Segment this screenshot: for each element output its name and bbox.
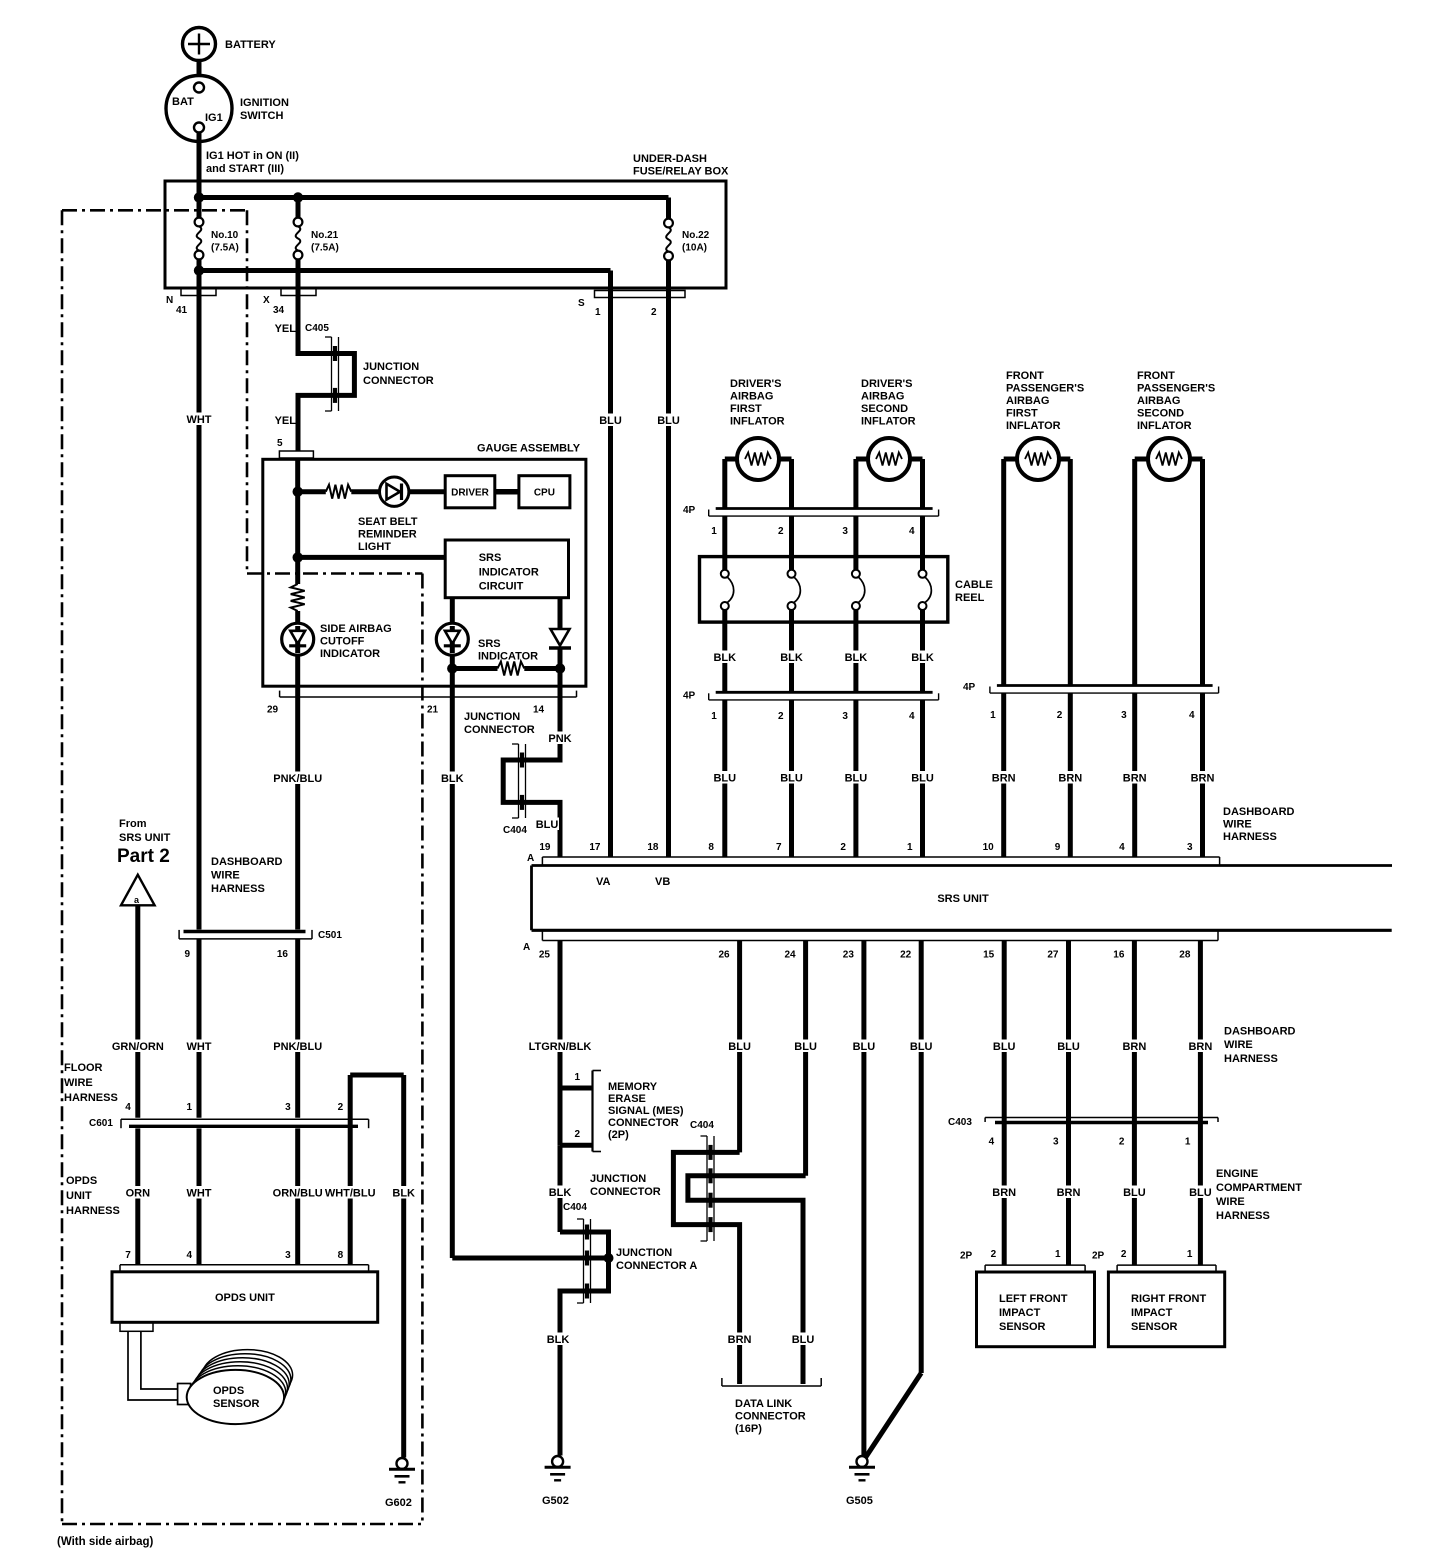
svg-text:3: 3 (1187, 842, 1193, 853)
svg-text:HARNESS: HARNESS (64, 1092, 118, 1104)
svg-text:PASSENGER'S: PASSENGER'S (1006, 383, 1084, 395)
svg-text:COMPARTMENT: COMPARTMENT (1216, 1182, 1302, 1194)
svg-text:CONNECTOR: CONNECTOR (590, 1186, 661, 1198)
svg-text:CONNECTOR: CONNECTOR (608, 1117, 679, 1129)
svg-text:4P: 4P (683, 505, 696, 516)
svg-text:IG1: IG1 (205, 112, 223, 124)
svg-text:INDICATOR: INDICATOR (478, 651, 538, 663)
svg-text:DRIVER: DRIVER (451, 488, 490, 499)
svg-text:CPU: CPU (534, 488, 555, 499)
svg-text:1: 1 (186, 1102, 192, 1113)
svg-text:BLU: BLU (794, 1041, 817, 1053)
svg-text:SRS UNIT: SRS UNIT (937, 893, 989, 905)
svg-text:PNK/BLU: PNK/BLU (273, 773, 322, 785)
svg-text:BLU: BLU (780, 773, 803, 785)
svg-text:VA: VA (596, 876, 611, 888)
svg-text:BLU: BLU (1189, 1187, 1212, 1199)
svg-text:BLK: BLK (713, 652, 736, 664)
svg-text:16: 16 (1113, 950, 1125, 961)
svg-text:OPDS: OPDS (213, 1385, 244, 1397)
svg-text:HARNESS: HARNESS (211, 883, 265, 895)
svg-text:DRIVER'S: DRIVER'S (730, 378, 782, 390)
svg-text:C404: C404 (503, 825, 527, 836)
svg-text:OPDS: OPDS (66, 1175, 97, 1187)
svg-text:1: 1 (595, 307, 601, 318)
svg-text:BLU: BLU (657, 415, 680, 427)
svg-text:CONNECTOR: CONNECTOR (464, 724, 535, 736)
svg-text:3: 3 (1121, 710, 1127, 721)
svg-text:BLU: BLU (993, 1041, 1016, 1053)
svg-text:2: 2 (574, 1129, 580, 1140)
svg-text:2: 2 (778, 711, 784, 722)
svg-text:23: 23 (843, 950, 855, 961)
svg-text:JUNCTION: JUNCTION (464, 711, 520, 723)
svg-text:S: S (578, 298, 585, 309)
svg-text:(16P): (16P) (735, 1423, 762, 1435)
svg-text:BRN: BRN (1058, 773, 1082, 785)
svg-text:CIRCUIT: CIRCUIT (479, 581, 524, 593)
svg-text:14: 14 (533, 705, 545, 716)
svg-text:BLK: BLK (441, 773, 464, 785)
svg-text:WIRE: WIRE (211, 870, 240, 882)
svg-text:1: 1 (1187, 1249, 1193, 1260)
svg-text:FLOOR: FLOOR (64, 1062, 103, 1074)
svg-text:2: 2 (1057, 710, 1063, 721)
svg-text:WHT/BLU: WHT/BLU (325, 1188, 376, 1200)
svg-text:2: 2 (840, 842, 846, 853)
svg-text:SRS UNIT: SRS UNIT (119, 832, 171, 844)
svg-text:WIRE: WIRE (1224, 1039, 1253, 1051)
svg-text:A: A (527, 853, 534, 864)
svg-text:WHT: WHT (186, 1041, 211, 1053)
svg-text:16: 16 (277, 949, 289, 960)
svg-text:IMPACT: IMPACT (999, 1307, 1041, 1319)
svg-text:1: 1 (990, 710, 996, 721)
svg-text:INFLATOR: INFLATOR (1006, 420, 1061, 432)
svg-text:8: 8 (338, 1250, 344, 1261)
svg-text:BLU: BLU (792, 1334, 815, 1346)
svg-text:WIRE: WIRE (1223, 819, 1252, 831)
svg-text:FIRST: FIRST (730, 403, 762, 415)
svg-text:INFLATOR: INFLATOR (730, 416, 785, 428)
svg-text:4: 4 (989, 1137, 995, 1148)
svg-text:G502: G502 (542, 1495, 569, 1507)
svg-text:3: 3 (1053, 1137, 1059, 1148)
svg-text:No.21: No.21 (311, 230, 339, 241)
svg-text:BLK: BLK (549, 1187, 572, 1199)
svg-text:27: 27 (1047, 950, 1059, 961)
svg-text:ORN: ORN (126, 1188, 151, 1200)
svg-text:WIRE: WIRE (64, 1077, 93, 1089)
svg-text:No.22: No.22 (682, 230, 710, 241)
svg-text:GRN/ORN: GRN/ORN (112, 1041, 164, 1053)
svg-text:YEL: YEL (275, 415, 297, 427)
svg-text:26: 26 (718, 950, 730, 961)
svg-text:and START (III): and START (III) (206, 163, 284, 175)
svg-text:15: 15 (983, 950, 995, 961)
svg-text:BAT: BAT (172, 96, 194, 108)
svg-text:17: 17 (589, 842, 601, 853)
svg-text:BRN: BRN (728, 1334, 752, 1346)
svg-text:BLU: BLU (853, 1041, 876, 1053)
svg-text:DATA LINK: DATA LINK (735, 1398, 792, 1410)
svg-text:4P: 4P (963, 682, 976, 693)
svg-text:(With side airbag): (With side airbag) (57, 1536, 154, 1548)
svg-text:ERASE: ERASE (608, 1093, 646, 1105)
svg-text:C403: C403 (948, 1117, 972, 1128)
svg-text:SENSOR: SENSOR (213, 1398, 260, 1410)
svg-text:BRN: BRN (1057, 1187, 1081, 1199)
svg-text:IMPACT: IMPACT (1131, 1307, 1173, 1319)
svg-text:3: 3 (842, 711, 848, 722)
svg-text:CONNECTOR: CONNECTOR (363, 375, 434, 387)
svg-text:C501: C501 (318, 930, 342, 941)
svg-text:2: 2 (1121, 1249, 1127, 1260)
svg-text:4: 4 (1119, 842, 1125, 853)
svg-text:(7.5A): (7.5A) (211, 243, 239, 254)
svg-text:AIRBAG: AIRBAG (1137, 395, 1180, 407)
svg-text:INDICATOR: INDICATOR (320, 648, 380, 660)
svg-text:25: 25 (539, 950, 551, 961)
svg-text:1: 1 (711, 711, 717, 722)
svg-text:BLU: BLU (728, 1041, 751, 1053)
svg-text:HARNESS: HARNESS (1216, 1210, 1270, 1222)
svg-text:1: 1 (574, 1072, 580, 1083)
svg-text:BLK: BLK (780, 652, 803, 664)
svg-text:BATTERY: BATTERY (225, 39, 276, 51)
svg-text:9: 9 (184, 949, 190, 960)
svg-text:INDICATOR: INDICATOR (479, 567, 539, 579)
svg-text:JUNCTION: JUNCTION (616, 1247, 672, 1259)
svg-text:19: 19 (539, 842, 551, 853)
svg-text:2: 2 (338, 1102, 344, 1113)
svg-text:1: 1 (1185, 1137, 1191, 1148)
svg-text:4: 4 (125, 1102, 131, 1113)
svg-text:CABLE: CABLE (955, 579, 993, 591)
svg-text:G602: G602 (385, 1497, 412, 1509)
svg-text:PNK/BLU: PNK/BLU (273, 1041, 322, 1053)
svg-text:9: 9 (1055, 842, 1061, 853)
svg-text:(10A): (10A) (682, 243, 707, 254)
svg-text:4P: 4P (683, 691, 696, 702)
svg-text:Part 2: Part 2 (117, 846, 170, 867)
svg-text:UNDER-DASH: UNDER-DASH (633, 153, 707, 165)
svg-text:CUTOFF: CUTOFF (320, 636, 365, 648)
svg-text:34: 34 (273, 305, 285, 316)
svg-text:4: 4 (1189, 710, 1195, 721)
svg-text:SIDE AIRBAG: SIDE AIRBAG (320, 623, 392, 635)
svg-text:WIRE: WIRE (1216, 1196, 1245, 1208)
svg-text:BLK: BLK (845, 652, 868, 664)
svg-text:BLU: BLU (713, 773, 736, 785)
svg-text:BLU: BLU (845, 773, 868, 785)
svg-text:ORN/BLU: ORN/BLU (273, 1188, 323, 1200)
svg-text:FRONT: FRONT (1006, 370, 1044, 382)
svg-text:C404: C404 (690, 1120, 714, 1131)
svg-text:UNIT: UNIT (66, 1190, 92, 1202)
svg-text:From: From (119, 818, 147, 830)
svg-text:AIRBAG: AIRBAG (861, 391, 904, 403)
svg-text:N: N (166, 295, 173, 306)
svg-text:BLU: BLU (536, 819, 559, 831)
svg-text:DASHBOARD: DASHBOARD (1223, 806, 1295, 818)
svg-text:SWITCH: SWITCH (240, 110, 283, 122)
svg-text:AIRBAG: AIRBAG (730, 391, 773, 403)
svg-text:BRN: BRN (1188, 1041, 1212, 1053)
svg-text:SENSOR: SENSOR (999, 1321, 1046, 1333)
svg-text:FRONT: FRONT (1137, 370, 1175, 382)
svg-text:24: 24 (784, 950, 796, 961)
svg-text:CONNECTOR: CONNECTOR (735, 1411, 806, 1423)
svg-text:BLU: BLU (1123, 1187, 1146, 1199)
svg-text:29: 29 (267, 705, 279, 716)
svg-text:HARNESS: HARNESS (1224, 1053, 1278, 1065)
svg-text:OPDS UNIT: OPDS UNIT (215, 1292, 275, 1304)
svg-text:1: 1 (711, 526, 717, 537)
svg-text:BLU: BLU (599, 415, 622, 427)
svg-text:7: 7 (125, 1250, 131, 1261)
svg-text:CONNECTOR A: CONNECTOR A (616, 1260, 697, 1272)
svg-text:3: 3 (842, 526, 848, 537)
svg-text:C405: C405 (305, 323, 329, 334)
svg-text:8: 8 (708, 842, 714, 853)
svg-text:SRS: SRS (479, 552, 502, 564)
svg-text:SECOND: SECOND (861, 403, 908, 415)
svg-text:PNK: PNK (548, 733, 571, 745)
svg-text:RIGHT FRONT: RIGHT FRONT (1131, 1293, 1206, 1305)
svg-text:SIGNAL (MES): SIGNAL (MES) (608, 1105, 684, 1117)
svg-text:DRIVER'S: DRIVER'S (861, 378, 913, 390)
svg-text:HARNESS: HARNESS (1223, 831, 1277, 843)
svg-text:41: 41 (176, 305, 188, 316)
svg-text:1: 1 (1055, 1249, 1061, 1260)
svg-text:4: 4 (909, 711, 915, 722)
svg-text:4: 4 (909, 526, 915, 537)
svg-text:G505: G505 (846, 1495, 873, 1507)
svg-text:28: 28 (1179, 950, 1191, 961)
svg-text:ENGINE: ENGINE (1216, 1168, 1258, 1180)
svg-text:7: 7 (776, 842, 782, 853)
svg-text:HARNESS: HARNESS (66, 1205, 120, 1217)
svg-text:DASHBOARD: DASHBOARD (211, 856, 283, 868)
svg-text:5: 5 (277, 438, 283, 449)
svg-text:BLK: BLK (547, 1334, 570, 1346)
svg-text:BRN: BRN (992, 773, 1016, 785)
svg-text:2: 2 (1119, 1137, 1125, 1148)
svg-text:JUNCTION: JUNCTION (590, 1173, 646, 1185)
svg-text:PASSENGER'S: PASSENGER'S (1137, 383, 1215, 395)
svg-text:3: 3 (285, 1102, 291, 1113)
svg-text:BLK: BLK (911, 652, 934, 664)
svg-text:MEMORY: MEMORY (608, 1081, 658, 1093)
svg-text:WHT: WHT (186, 414, 211, 426)
svg-text:LTGRN/BLK: LTGRN/BLK (529, 1041, 592, 1053)
svg-text:C404: C404 (563, 1202, 587, 1213)
svg-text:REEL: REEL (955, 592, 985, 604)
svg-text:1: 1 (907, 842, 913, 853)
svg-text:DASHBOARD: DASHBOARD (1224, 1026, 1296, 1038)
svg-text:18: 18 (647, 842, 659, 853)
svg-text:GAUGE ASSEMBLY: GAUGE ASSEMBLY (477, 443, 581, 455)
svg-text:a: a (134, 895, 140, 905)
svg-text:INFLATOR: INFLATOR (1137, 420, 1192, 432)
svg-text:FUSE/RELAY BOX: FUSE/RELAY BOX (633, 166, 729, 178)
svg-text:IG1 HOT in ON (II): IG1 HOT in ON (II) (206, 150, 299, 162)
svg-text:(7.5A): (7.5A) (311, 243, 339, 254)
svg-text:BRN: BRN (1122, 1041, 1146, 1053)
svg-text:SRS: SRS (478, 638, 501, 650)
svg-text:2: 2 (651, 307, 657, 318)
svg-text:22: 22 (900, 950, 912, 961)
svg-text:(2P): (2P) (608, 1129, 629, 1141)
svg-text:BRN: BRN (1191, 773, 1215, 785)
svg-text:IGNITION: IGNITION (240, 97, 289, 109)
svg-text:21: 21 (427, 705, 439, 716)
svg-text:2: 2 (778, 526, 784, 537)
svg-text:SEAT BELT: SEAT BELT (358, 516, 418, 528)
svg-text:FIRST: FIRST (1006, 408, 1038, 420)
svg-text:WHT: WHT (186, 1188, 211, 1200)
svg-text:JUNCTION: JUNCTION (363, 361, 419, 373)
svg-text:BLU: BLU (911, 773, 934, 785)
svg-text:BLU: BLU (1057, 1041, 1080, 1053)
svg-text:LIGHT: LIGHT (358, 541, 391, 553)
svg-text:REMINDER: REMINDER (358, 529, 417, 541)
svg-text:VB: VB (655, 876, 670, 888)
svg-text:SECOND: SECOND (1137, 408, 1184, 420)
svg-text:BLK: BLK (392, 1188, 415, 1200)
svg-text:C601: C601 (89, 1118, 113, 1129)
svg-text:4: 4 (186, 1250, 192, 1261)
svg-text:10: 10 (983, 842, 995, 853)
svg-text:INFLATOR: INFLATOR (861, 416, 916, 428)
svg-text:SENSOR: SENSOR (1131, 1321, 1178, 1333)
svg-text:X: X (263, 295, 270, 306)
svg-text:BRN: BRN (1123, 773, 1147, 785)
svg-text:AIRBAG: AIRBAG (1006, 395, 1049, 407)
svg-text:LEFT FRONT: LEFT FRONT (999, 1293, 1068, 1305)
svg-text:2: 2 (991, 1249, 997, 1260)
svg-text:No.10: No.10 (211, 230, 239, 241)
svg-text:YEL: YEL (275, 323, 297, 335)
svg-text:3: 3 (285, 1250, 291, 1261)
svg-text:BLU: BLU (910, 1041, 933, 1053)
svg-text:A: A (523, 942, 530, 953)
svg-text:2P: 2P (1092, 1251, 1105, 1262)
svg-text:2P: 2P (960, 1251, 973, 1262)
svg-text:BRN: BRN (992, 1187, 1016, 1199)
